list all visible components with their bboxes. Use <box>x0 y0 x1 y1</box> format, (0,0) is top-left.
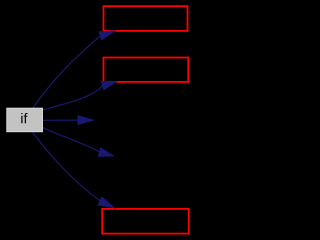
edge E3: if -> hidden node (horizontal arrow right) <box>43 116 93 125</box>
label "if" (glyph f) <box>24 113 28 123</box>
edge E1: if -> box1 (curved arrow up-right) <box>33 31 116 109</box>
label "if" (glyph i) <box>21 113 22 123</box>
node if (gray filled, current node) <box>7 108 43 132</box>
edge E2: if -> box2 (curved arrow up-right) <box>43 81 117 110</box>
node box1 (red bordered, top) <box>104 6 188 31</box>
node box3 (red bordered, bottom) <box>102 209 189 234</box>
edge E5: if -> box3 (curved arrow down-right) <box>33 132 115 208</box>
edge E4: if -> hidden node (arrow down-right) <box>43 128 114 157</box>
node box2 (red bordered, middle) <box>104 58 189 82</box>
